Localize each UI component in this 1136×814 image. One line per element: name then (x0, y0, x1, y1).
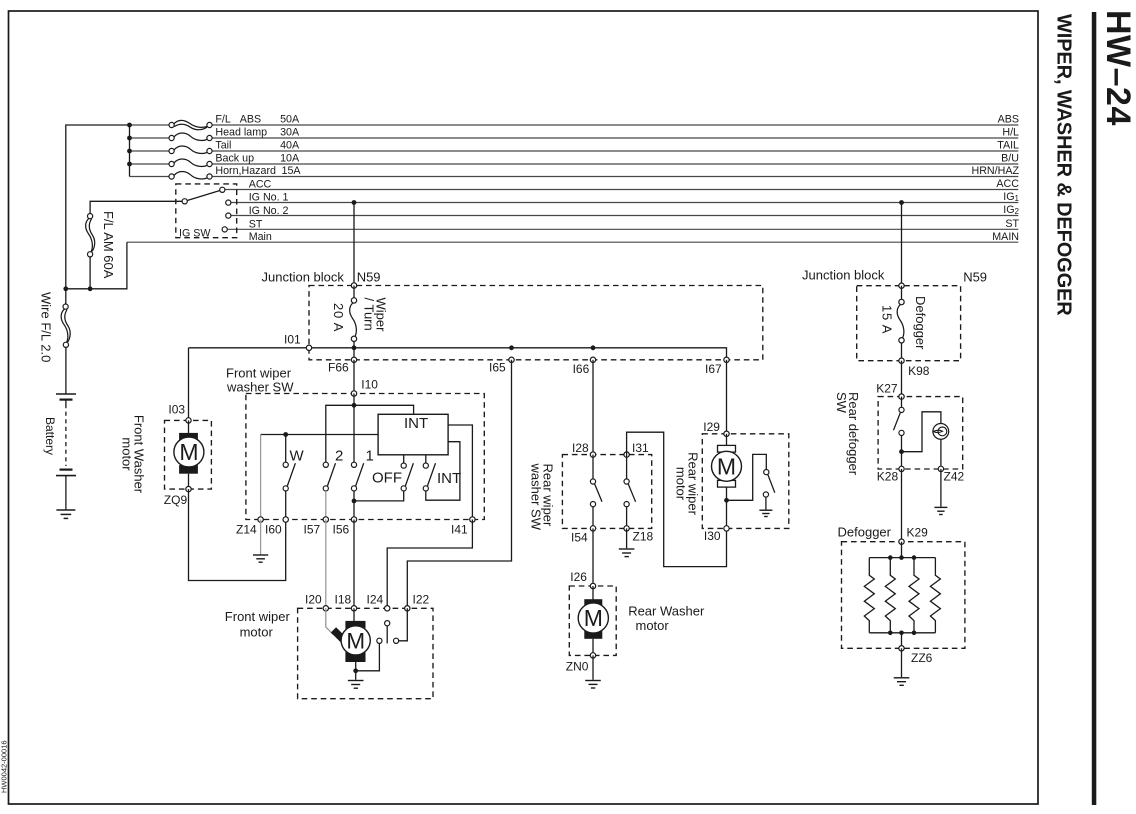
svg-text:Wire F/L 2.0: Wire F/L 2.0 (39, 292, 54, 362)
rear wiper washer SW box (562, 455, 651, 529)
svg-text:Z42: Z42 (944, 470, 965, 484)
svg-text:K27: K27 (876, 382, 898, 396)
switch park blade (385, 621, 390, 644)
wire F66 to I10 (353, 360, 355, 394)
rail labels right side (972, 114, 1020, 243)
svg-text:INT: INT (404, 415, 428, 432)
svg-text:I54: I54 (571, 531, 588, 545)
rear defogger SW box (878, 397, 963, 469)
svg-text:Z14: Z14 (236, 523, 257, 537)
wire park switch feed (727, 454, 767, 500)
motor rear wiper (712, 434, 742, 529)
wire K28 to K29 (901, 469, 903, 542)
wire I20 pigtail (326, 608, 334, 634)
node I22 (405, 606, 410, 611)
INT box (378, 414, 448, 455)
front washer motor box (165, 420, 212, 489)
wire 1 to I56 (353, 491, 355, 520)
resistor grid element 3 (909, 558, 919, 633)
node ZQ9 (186, 486, 191, 491)
svg-text:B/U: B/U (1001, 153, 1019, 165)
junction dots grid top (888, 555, 893, 560)
motor front washer (174, 420, 204, 489)
contact IG1 (226, 200, 231, 205)
node I20 (323, 606, 328, 611)
svg-text:I26: I26 (570, 570, 587, 584)
junction dot OFF return (352, 499, 357, 504)
svg-text:Defogger: Defogger (913, 296, 928, 350)
svg-text:H/L: H/L (1002, 127, 1019, 139)
wire K29 to grid (901, 542, 903, 558)
svg-text:washer SW: washer SW (226, 380, 294, 395)
wire I01 to I03 (188, 348, 190, 420)
wire rail TAIL (130, 150, 170, 152)
svg-text:I29: I29 (703, 420, 720, 434)
wire ZN0 to ground (592, 655, 594, 679)
wire motor to ground (355, 662, 357, 680)
svg-text:I41: I41 (451, 523, 468, 537)
node N59 pin (351, 283, 356, 288)
wire INT to I41 (448, 425, 472, 520)
switch 2 (323, 462, 335, 491)
svg-text:OFF: OFF (372, 470, 402, 487)
node block pin (899, 283, 904, 288)
ground park rear (759, 510, 772, 516)
svg-text:20 A: 20 A (331, 303, 346, 332)
node K27 (899, 394, 904, 399)
wire Z14 to ground (260, 520, 262, 555)
node K29 (899, 539, 904, 544)
svg-text:I30: I30 (704, 529, 721, 543)
ground battery (56, 510, 75, 518)
svg-text:ST: ST (1005, 218, 1019, 230)
node I57 (323, 517, 328, 522)
fuse 20A Wiper/Turn (350, 298, 357, 342)
ground Z14 (253, 555, 268, 562)
node I30 (724, 526, 729, 531)
wire I66 to I28 (592, 360, 594, 455)
wire ZZ6 to ground (901, 648, 903, 677)
svg-text:50A: 50A (280, 114, 300, 126)
node I65 (509, 357, 514, 362)
contact ST (222, 227, 227, 232)
ground ZZ6 (894, 678, 910, 686)
svg-text:30A: 30A (280, 127, 300, 139)
junction dot F66 (352, 345, 357, 350)
svg-text:Rear wiperwasher SW: Rear wiperwasher SW (529, 463, 556, 531)
node I31 (624, 452, 629, 457)
svg-text:I66: I66 (573, 362, 590, 376)
wire battery to fuse bus (66, 125, 130, 289)
wire W stub (285, 435, 287, 463)
wire Z14 link (261, 434, 379, 436)
svg-text:Head lamp: Head lamp (215, 127, 267, 139)
front wiper motor box (298, 608, 433, 698)
wire pin to fuse (353, 286, 355, 299)
junction dot motor bottom (724, 498, 729, 503)
svg-text:WIPER, WASHER & DEFOGGER: WIPER, WASHER & DEFOGGER (1052, 14, 1074, 316)
wire rail HRN/HAZ (130, 176, 170, 178)
switch park rear (763, 470, 774, 498)
junction dots fuse bus (127, 123, 132, 128)
defogger grid top bus (869, 557, 935, 559)
svg-text:I65: I65 (489, 361, 506, 375)
wire ZQ9 to I60 (189, 489, 286, 580)
switch IG blade (187, 191, 220, 201)
svg-text:IG SW: IG SW (179, 228, 211, 240)
wire I57 to I20 (325, 520, 327, 609)
node I03 (186, 418, 191, 423)
svg-text:Rear Washer: Rear Washer (628, 604, 705, 619)
wire fuse bus vertical (129, 125, 131, 177)
node Z14 (258, 517, 263, 522)
defogger box (842, 542, 965, 649)
svg-text:I31: I31 (632, 441, 649, 455)
node I60 (283, 517, 288, 522)
wire park to ground (765, 497, 767, 510)
svg-text:K28: K28 (877, 470, 899, 484)
svg-text:ZZ6: ZZ6 (911, 651, 933, 665)
svg-text:Front wiper: Front wiper (225, 609, 291, 624)
svg-text:INT: INT (437, 470, 461, 487)
wire lamp to Z42 (940, 440, 942, 469)
resistor grid element 1 (864, 558, 874, 633)
svg-text:Tail: Tail (215, 140, 231, 152)
wire pin to fuse (901, 286, 903, 300)
junction dot I65 (509, 345, 514, 350)
wire main bus (189, 348, 727, 360)
wire park contact to motor bottom (356, 643, 380, 671)
ground Z42 (934, 507, 947, 514)
svg-text:I10: I10 (361, 378, 378, 392)
svg-text:ABS: ABS (998, 114, 1019, 126)
fusible link F/L ABS 50A (169, 120, 212, 129)
switch INT (423, 455, 435, 491)
junction block box N59 (309, 286, 763, 360)
defogger grid bottom bus (869, 632, 935, 634)
wire W to I60 (285, 491, 287, 520)
wire rail ABS (130, 124, 170, 126)
wire AM60A to bus (89, 257, 91, 289)
wire I18 to motor (353, 608, 355, 622)
wire IG1 to defogger block (901, 203, 903, 286)
wire Z42 to ground (940, 469, 942, 507)
node K98 (899, 358, 904, 363)
svg-text:I01: I01 (284, 333, 301, 347)
fuse Head lamp 30A (169, 133, 212, 141)
wire battery to ground (65, 476, 67, 510)
junction dot motor bottom (353, 668, 358, 673)
svg-text:Battery: Battery (43, 417, 57, 455)
node I26 (590, 583, 595, 588)
svg-text:HRN/HAZ: HRN/HAZ (972, 165, 1020, 177)
fuse Back up 10A (169, 159, 212, 167)
rear washer motor box (569, 586, 616, 655)
ground Z18 (619, 549, 635, 557)
contact IG input (182, 199, 187, 204)
contact park I22 side (394, 638, 399, 643)
wire rail IG1 (231, 202, 1019, 204)
wire MAIN feed (66, 242, 127, 289)
ground ZN0 (585, 681, 601, 689)
fuse Tail 40A (169, 146, 212, 154)
svg-text:M: M (346, 628, 365, 653)
switch W (283, 462, 295, 491)
wire INT return (426, 442, 460, 501)
motor rear washer (578, 586, 608, 655)
fusible link Wire F/L 2.0 (61, 289, 70, 348)
svg-text:IG No. 2: IG No. 2 (249, 205, 289, 217)
svg-text:K98: K98 (908, 364, 930, 378)
contact park motor side (377, 638, 382, 643)
rear wiper motor box (702, 434, 789, 529)
node Z18 (624, 526, 629, 531)
sidebar thick rule (1092, 12, 1097, 805)
switch OFF (401, 455, 413, 491)
svg-text:W: W (290, 448, 305, 465)
node I54 (590, 526, 595, 531)
svg-text:F/L ABS: F/L ABS (215, 114, 261, 126)
node K28 (899, 466, 904, 471)
node I24 (385, 606, 390, 611)
node I41 (470, 517, 475, 522)
fuse labels (215, 114, 301, 178)
svg-text:40A: 40A (280, 140, 300, 152)
switch I28 (590, 455, 602, 529)
wire I10 bus (326, 405, 414, 462)
svg-text:N59: N59 (357, 269, 381, 284)
wire IGSW feed (90, 201, 182, 213)
junction dot battery bus left (63, 286, 68, 291)
wire rail IG2 (231, 215, 1019, 217)
svg-text:motor: motor (636, 618, 670, 633)
svg-text:Defogger: Defogger (838, 525, 892, 540)
wire OFF return (354, 491, 404, 501)
junction dot I66 (591, 345, 596, 350)
svg-text:I24: I24 (367, 593, 384, 607)
svg-text:15A: 15A (282, 165, 302, 177)
svg-text:F/L AM 60A: F/L AM 60A (101, 211, 116, 279)
svg-text:ZQ9: ZQ9 (164, 493, 188, 507)
node F66 (351, 357, 356, 362)
svg-text:I20: I20 (305, 593, 322, 607)
svg-text:Z18: Z18 (633, 530, 654, 544)
svg-text:Back up: Back up (215, 153, 254, 165)
junction dot battery bus right (88, 286, 93, 291)
junction dot IG1 rail right (899, 200, 904, 205)
svg-text:I22: I22 (413, 593, 430, 607)
junction dot I10 (352, 403, 357, 408)
svg-text:Wiper/ Turn: Wiper/ Turn (362, 298, 389, 333)
wire grid to ZZ6 (901, 633, 903, 649)
wire fuse to bus (353, 341, 355, 360)
wire I54 to I26 (592, 528, 594, 586)
svg-text:TAIL: TAIL (997, 140, 1019, 152)
wire I31 to I30 route (627, 432, 727, 566)
svg-text:Front wiper: Front wiper (226, 366, 292, 381)
wire rail ACC (225, 189, 1019, 191)
fuse Horn,Hazard 15A (169, 171, 212, 179)
svg-text:F66: F66 (328, 361, 349, 375)
svg-text:ACC: ACC (996, 178, 1019, 190)
contact ACC (220, 187, 225, 192)
svg-text:I18: I18 (335, 593, 352, 607)
svg-text:2: 2 (335, 448, 343, 465)
wire rail B/U (130, 163, 170, 165)
node I18 (351, 606, 356, 611)
svg-text:Horn,Hazard: Horn,Hazard (215, 165, 276, 177)
fuse 15A Defogger (897, 299, 904, 343)
svg-text:Junction block: Junction block (802, 268, 885, 283)
wire I65 to I22 (407, 360, 511, 609)
node I56 (351, 517, 356, 522)
node I10 (351, 391, 356, 396)
svg-text:M: M (717, 453, 736, 479)
wire rail H/L (130, 137, 170, 139)
motor front wiper (331, 621, 370, 662)
battery (56, 394, 76, 476)
svg-text:K29: K29 (907, 526, 929, 540)
resistor grid element 4 (930, 558, 940, 633)
svg-text:HW–24: HW–24 (1099, 10, 1136, 126)
svg-text:IG No. 1: IG No. 1 (249, 192, 289, 204)
node I29 (724, 431, 729, 436)
node I01 (306, 345, 311, 350)
svg-text:motor: motor (240, 624, 274, 639)
junction dot IG1 rail (352, 200, 357, 205)
svg-text:I56: I56 (333, 523, 350, 537)
wire rail MAIN (127, 241, 1018, 243)
svg-text:I03: I03 (168, 403, 185, 417)
svg-text:Junction block: Junction block (262, 269, 345, 284)
lamp defogger indicator (933, 424, 949, 440)
svg-text:I28: I28 (572, 441, 589, 455)
svg-text:15 A: 15 A (879, 305, 894, 334)
svg-text:M: M (584, 605, 603, 631)
wire fuse to K98 (901, 343, 903, 361)
resistor grid element 2 (885, 558, 895, 633)
switch 1 (351, 462, 363, 491)
node I66 (590, 357, 595, 362)
node ZN0 (590, 653, 595, 658)
wire lamp feed (902, 412, 941, 452)
svg-text:M: M (179, 439, 198, 465)
ignition switch box (176, 184, 237, 238)
svg-text:N59: N59 (963, 270, 987, 285)
wire I56 to I18 (353, 520, 355, 609)
switch K27 (894, 397, 905, 469)
svg-text:MAIN: MAIN (992, 231, 1019, 243)
svg-text:I60: I60 (265, 523, 282, 537)
svg-text:HW0042-00016: HW0042-00016 (0, 740, 9, 793)
svg-text:ZN0: ZN0 (566, 660, 589, 674)
node I67 (724, 357, 729, 362)
wire Z18 to ground (626, 528, 628, 548)
wire K98 to K27 (901, 361, 903, 397)
wire I67 to I29 (726, 360, 728, 434)
contact IG2 (226, 213, 231, 218)
fusible link F/L AM 60A (86, 214, 95, 257)
svg-text:I67: I67 (705, 362, 722, 376)
wire park contact to I22 (399, 608, 408, 641)
junction dot K28 (899, 449, 904, 454)
junction block box right (857, 286, 961, 361)
svg-text:ACC: ACC (249, 179, 272, 191)
node Z42 (938, 466, 943, 471)
junction dot W top (283, 432, 288, 437)
switch I31 (624, 455, 636, 529)
wire I41 to I24 (387, 520, 472, 609)
wire rail ST (227, 228, 1018, 230)
node ZZ6 (899, 646, 904, 651)
wire to battery (65, 347, 67, 393)
ground front wiper motor (348, 681, 364, 689)
wire Z14 column (260, 435, 262, 520)
svg-text:1: 1 (366, 448, 374, 465)
svg-text:ST: ST (249, 219, 263, 231)
svg-text:I57: I57 (304, 523, 321, 537)
svg-text:10A: 10A (280, 153, 300, 165)
svg-text:Main: Main (249, 231, 272, 243)
front wiper washer SW box (246, 394, 484, 520)
node I28 (590, 452, 595, 457)
junction dots grid bottom (888, 631, 893, 636)
wire 2 to I57 (325, 491, 327, 520)
wire IG1 to N59 (353, 203, 355, 286)
